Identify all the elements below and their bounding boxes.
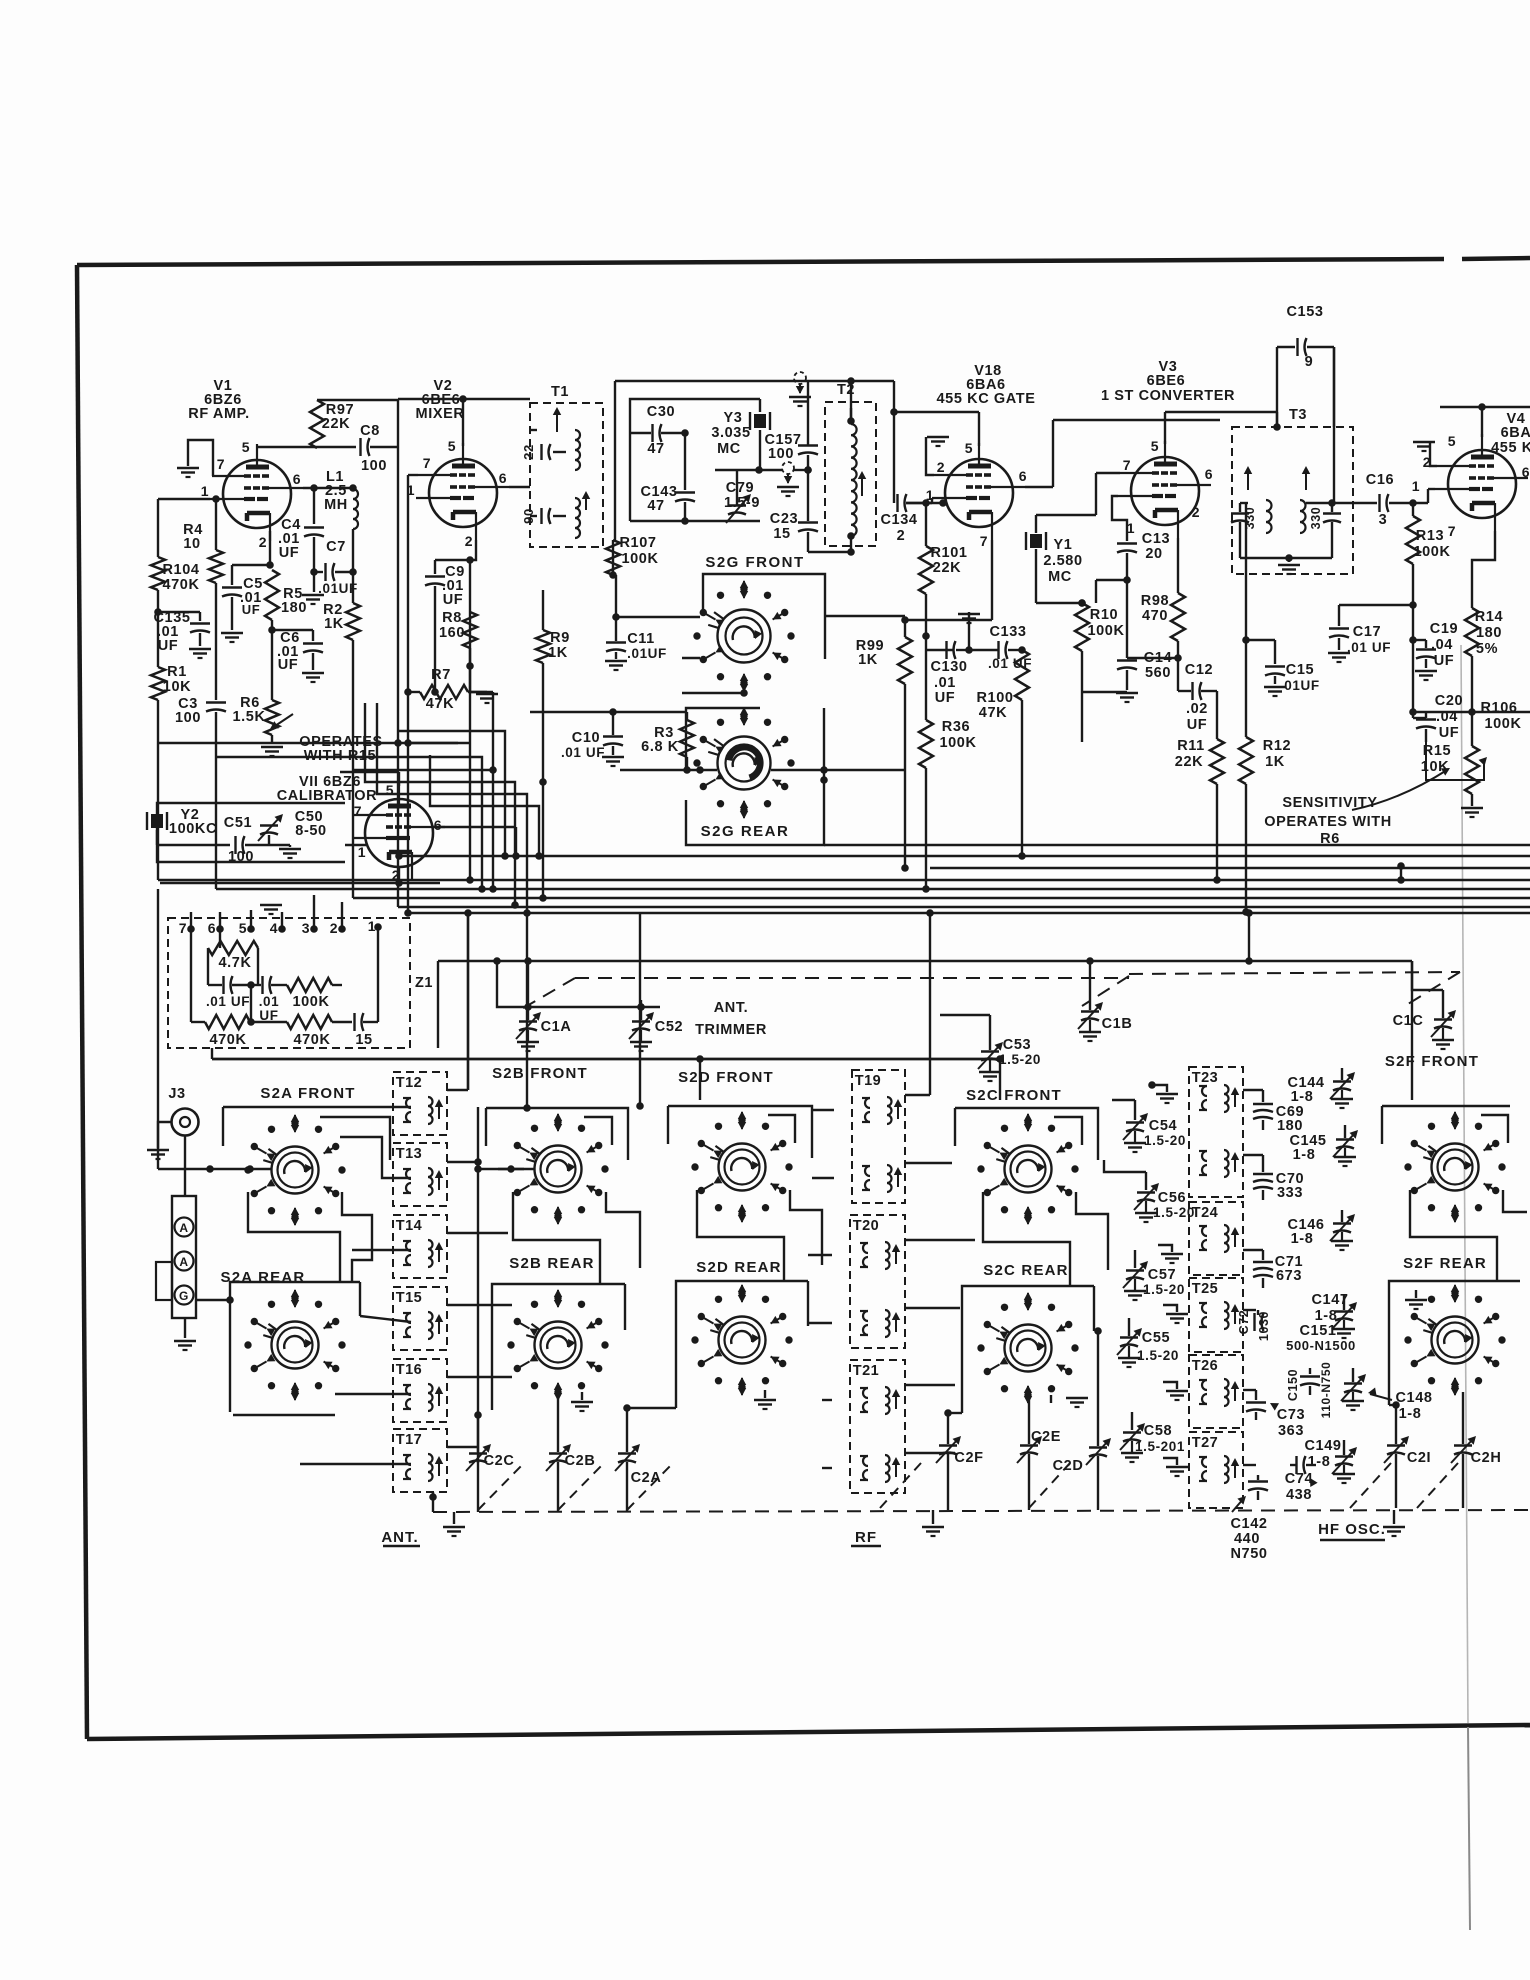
- svg-text:T27: T27: [1192, 1435, 1219, 1451]
- svg-text:Z1: Z1: [415, 975, 433, 991]
- C2A riser: [626, 1408, 628, 1452]
- svg-text:1.5-20: 1.5-20: [1137, 1348, 1179, 1363]
- svg-text:T21: T21: [853, 1363, 880, 1379]
- trimmer C147: [1343, 1295, 1345, 1310]
- wire V2 pin5: [462, 399, 464, 446]
- trimmer C2B: [549, 1452, 567, 1454]
- capacitor C11 .01UF: [615, 575, 617, 641]
- staircase wire C: [353, 769, 493, 771]
- resistor R15 10K: [1471, 712, 1473, 746]
- svg-text:UF: UF: [1187, 717, 1208, 733]
- resistor R12 1K: [1245, 503, 1247, 737]
- wire R107 vert: [612, 540, 614, 575]
- capacitor C17 .01UF: [1338, 605, 1340, 626]
- T25 ground: [1163, 1305, 1177, 1312]
- wire R1 down: [157, 700, 159, 743]
- S2F interwires: [1410, 1190, 1497, 1281]
- svg-text:2: 2: [330, 920, 338, 936]
- T15 wires: [360, 1316, 411, 1322]
- svg-text:C2B: C2B: [565, 1453, 596, 1469]
- wire y961: [438, 960, 1412, 962]
- wire V1 pin6: [303, 487, 353, 489]
- gang dashed bottom: [433, 1510, 1530, 1512]
- svg-text:T13: T13: [396, 1146, 423, 1162]
- capacitor C135: [158, 611, 200, 613]
- S2C front wires: [955, 1108, 1098, 1160]
- ground under C7: [302, 594, 324, 597]
- svg-text:C1B: C1B: [1102, 1016, 1133, 1032]
- svg-text:C79: C79: [726, 480, 754, 496]
- capacitor C8: [359, 438, 361, 456]
- svg-text:1-8: 1-8: [1291, 1089, 1314, 1105]
- ground above Z1: [281, 912, 283, 929]
- capacitor C30 47: [651, 424, 653, 442]
- svg-text:C56: C56: [1158, 1190, 1186, 1206]
- trimmer C1B: [1089, 961, 1091, 1010]
- svg-text:22: 22: [521, 444, 536, 460]
- page border left: [77, 265, 87, 1739]
- svg-text:6: 6: [1019, 468, 1027, 484]
- svg-text:S2G FRONT: S2G FRONT: [705, 554, 804, 571]
- svg-text:CALIBRATOR: CALIBRATOR: [277, 788, 378, 804]
- trimmer C50 8-50: [268, 835, 270, 845]
- T column risers: [477, 1107, 479, 1463]
- svg-text:1.5-9: 1.5-9: [724, 495, 760, 511]
- wire R8 down: [469, 648, 471, 692]
- wire V18 pin5: [978, 412, 980, 446]
- svg-text:1-8: 1-8: [1399, 1406, 1422, 1422]
- svg-text:UF: UF: [242, 602, 261, 617]
- svg-text:ANT.: ANT.: [381, 1529, 418, 1546]
- svg-text:160: 160: [439, 625, 465, 641]
- svg-text:C74: C74: [1285, 1471, 1313, 1487]
- trimmer C145: [1344, 1125, 1346, 1138]
- bus riser x543: [542, 680, 544, 898]
- svg-text:C133: C133: [989, 624, 1026, 640]
- svg-text:C73: C73: [1277, 1407, 1305, 1423]
- capacitor C143 47: [675, 491, 695, 493]
- staircase wire A: [158, 742, 470, 744]
- svg-text:MIXER: MIXER: [416, 406, 465, 422]
- arrow R6 wiper: [272, 714, 293, 728]
- wire y712 top: [530, 711, 687, 713]
- trimmer C53: [989, 1015, 991, 1050]
- svg-text:1-8: 1-8: [1291, 1231, 1314, 1247]
- S2F rear wires: [1389, 1281, 1520, 1405]
- svg-text:500-N1500: 500-N1500: [1286, 1338, 1356, 1353]
- svg-text:470K: 470K: [209, 1032, 246, 1048]
- resistor R11 22K: [1216, 691, 1218, 739]
- trimmer C58: [1131, 1412, 1133, 1430]
- svg-text:MC: MC: [1048, 569, 1072, 585]
- wire xtal node: [759, 469, 782, 471]
- svg-text:6: 6: [499, 470, 507, 486]
- svg-text:C1C: C1C: [1393, 1013, 1424, 1029]
- capacitor C69 180: [1243, 1089, 1263, 1091]
- svg-text:438: 438: [1286, 1487, 1312, 1503]
- T3 right arrow: [1305, 470, 1307, 490]
- svg-text:T1: T1: [551, 384, 569, 400]
- wire V18 pin2 gnd: [926, 437, 934, 475]
- switch S2G rear: [718, 737, 771, 790]
- bus line 3: [930, 867, 1530, 869]
- svg-text:T14: T14: [396, 1218, 423, 1234]
- svg-text:330: 330: [1243, 507, 1257, 530]
- svg-text:UF: UF: [443, 592, 464, 608]
- J3 ground: [158, 1122, 171, 1148]
- capacitor C14 560: [1117, 659, 1137, 661]
- svg-text:MC: MC: [717, 441, 741, 457]
- svg-text:C149: C149: [1304, 1438, 1341, 1454]
- C2I riser: [1395, 1405, 1397, 1444]
- svg-text:1.5-20: 1.5-20: [1144, 1133, 1186, 1148]
- S2G front wires: [616, 616, 700, 618]
- ground C130 node: [968, 612, 970, 650]
- svg-text:T25: T25: [1192, 1281, 1219, 1297]
- wire y1007: [497, 961, 660, 1007]
- wire V2 pin7: [408, 474, 418, 476]
- bus riser x905: [904, 730, 906, 868]
- svg-text:363: 363: [1278, 1423, 1304, 1439]
- svg-text:1030: 1030: [1257, 1311, 1271, 1341]
- svg-text:1-8: 1-8: [1293, 1147, 1316, 1163]
- svg-text:.01 UF: .01 UF: [561, 745, 605, 760]
- resistor R10 100K: [1075, 603, 1089, 651]
- svg-text:470K: 470K: [162, 577, 199, 593]
- svg-text:560: 560: [1145, 665, 1171, 681]
- capacitor C73 363: [1243, 1389, 1256, 1391]
- svg-text:2: 2: [897, 528, 906, 544]
- S2B-T connectors: [478, 1168, 534, 1170]
- wire Z1 pins up: [190, 912, 192, 929]
- resistor R107 100K: [606, 540, 620, 575]
- svg-text:R15: R15: [1423, 743, 1451, 759]
- svg-text:.01UF: .01UF: [318, 581, 358, 596]
- capacitor C74 438: [1243, 1464, 1256, 1466]
- svg-text:4.7K: 4.7K: [218, 955, 251, 971]
- svg-text:5: 5: [1448, 433, 1456, 449]
- bus riser x926: [925, 790, 927, 889]
- trimmer C2I: [1387, 1444, 1405, 1446]
- capacitor C23 15: [798, 521, 818, 523]
- terminal G: [175, 1286, 194, 1305]
- svg-text:R7: R7: [431, 667, 451, 683]
- transformer T16: [393, 1359, 447, 1422]
- S2A rear wires: [230, 1282, 360, 1412]
- capacitor C4: [313, 488, 315, 524]
- switch S2B rear: [535, 1322, 582, 1369]
- transformer T19: [852, 1070, 905, 1203]
- trimmer C1A: [527, 961, 529, 1020]
- svg-text:R106: R106: [1480, 700, 1517, 716]
- transformer T17: [393, 1429, 447, 1492]
- bus left vertical x158: [157, 889, 159, 1059]
- transformer T23: [1189, 1067, 1243, 1197]
- svg-text:S2F REAR: S2F REAR: [1403, 1255, 1487, 1272]
- svg-text:T23: T23: [1192, 1070, 1219, 1086]
- S2B rear wires: [492, 1284, 625, 1410]
- S2G rear box: [686, 708, 760, 770]
- svg-text:UF: UF: [1439, 725, 1460, 741]
- svg-text:6: 6: [1205, 466, 1213, 482]
- resistor R101 22K: [919, 546, 933, 594]
- T3 ground: [1288, 556, 1290, 562]
- wire V4 pin5 top: [1481, 407, 1483, 437]
- T1 coil upper: [575, 430, 580, 470]
- switch S2F rear: [1432, 1317, 1479, 1364]
- svg-text:C150: C150: [1286, 1369, 1300, 1401]
- switch S2G front: [718, 610, 771, 663]
- svg-text:RF: RF: [855, 1529, 877, 1546]
- transformer T27: [1189, 1432, 1243, 1508]
- bus line 8: [408, 912, 1530, 914]
- wire V2 pin6: [509, 486, 530, 488]
- trimmer C1C: [1442, 990, 1444, 1018]
- svg-text:47K: 47K: [426, 696, 454, 712]
- svg-text:C1A: C1A: [541, 1019, 572, 1035]
- svg-text:1.5-20: 1.5-20: [1143, 1282, 1185, 1297]
- wire C30 node: [684, 433, 686, 490]
- C2C riser: [477, 1415, 479, 1452]
- svg-text:6BA: 6BA: [1501, 425, 1530, 441]
- terminal strip AAG: [172, 1196, 196, 1318]
- capacitor C133 .01UF: [969, 649, 999, 651]
- svg-text:R98: R98: [1141, 593, 1169, 609]
- T3 left winding: [1231, 512, 1249, 514]
- capacitor C15 01UF: [1274, 640, 1276, 664]
- transformer T12: [393, 1072, 447, 1135]
- svg-text:6: 6: [434, 817, 442, 833]
- phantom ground top: [794, 372, 806, 384]
- S2D rear wires: [676, 1281, 808, 1408]
- phantom ground 2: [782, 462, 794, 474]
- svg-text:100K: 100K: [939, 735, 976, 751]
- svg-text:5: 5: [386, 782, 394, 798]
- transformer T26: [1189, 1355, 1243, 1428]
- wire C134 to V18 pin1: [906, 502, 932, 504]
- svg-text:6: 6: [1522, 464, 1530, 480]
- svg-text:S2D FRONT: S2D FRONT: [678, 1069, 774, 1086]
- tube V1 6BZ6 RF amp: [223, 460, 291, 528]
- svg-text:C2A: C2A: [631, 1470, 662, 1486]
- gang dashed diag right: [1408, 972, 1460, 1004]
- resistor R98 470: [1177, 560, 1179, 593]
- resistor R13 100K: [1412, 503, 1414, 516]
- svg-text:R104: R104: [162, 562, 199, 578]
- resistor R3 6.8K: [686, 712, 688, 720]
- T24 ground: [1158, 1245, 1172, 1252]
- svg-text:5: 5: [448, 438, 456, 454]
- capacitor C13 20: [1117, 542, 1137, 544]
- page border bottom: [87, 1725, 1530, 1739]
- svg-text:100K: 100K: [1087, 623, 1124, 639]
- capacitor C5 .01UF: [231, 565, 233, 585]
- svg-text:R107: R107: [619, 535, 656, 551]
- resistor 100K z1: [287, 978, 332, 992]
- resistor 470K a: [205, 1015, 250, 1029]
- bus riser x1217: [1216, 800, 1218, 880]
- svg-text:A: A: [179, 1255, 188, 1269]
- T2 dashed box: [825, 402, 876, 546]
- svg-text:T16: T16: [396, 1362, 423, 1378]
- capacitor C9 .01UF: [435, 559, 470, 561]
- trimmer C57: [1134, 1250, 1136, 1268]
- svg-text:7: 7: [1123, 457, 1131, 473]
- T3 right winding: [1300, 500, 1306, 533]
- wire V1 pin2: [269, 531, 271, 565]
- ground under C50: [289, 845, 291, 847]
- capacitor C10 .01UF: [612, 712, 614, 735]
- svg-text:T20: T20: [853, 1218, 880, 1234]
- trimmer C2C: [469, 1452, 487, 1454]
- wire V18 pin6: [1025, 486, 1053, 488]
- svg-text:673: 673: [1276, 1268, 1302, 1284]
- wire V1 pin1: [158, 498, 210, 500]
- S2B extra riser: [526, 913, 528, 1108]
- tube V11 6BZ6 calibrator: [365, 799, 433, 867]
- S2G front box: [703, 574, 825, 659]
- resistor R8 160: [463, 612, 477, 648]
- wire C153 right leg: [1333, 347, 1335, 503]
- wire R104 to R1: [157, 590, 159, 667]
- capacitor C134 2: [896, 494, 898, 512]
- capacitor .01UF a: [222, 976, 224, 994]
- svg-text:T19: T19: [855, 1073, 882, 1089]
- svg-text:7: 7: [217, 456, 225, 472]
- svg-text:S2B FRONT: S2B FRONT: [492, 1065, 588, 1082]
- svg-text:C72: C72: [1237, 1310, 1251, 1335]
- T2 coil: [851, 424, 857, 536]
- svg-text:C2E: C2E: [1031, 1429, 1061, 1445]
- C2E riser: [1028, 1395, 1030, 1444]
- svg-text:UF: UF: [158, 638, 179, 654]
- svg-text:6: 6: [293, 471, 301, 487]
- T1 dashed box: [530, 403, 603, 547]
- bus line 1: [824, 844, 1530, 846]
- T1 coil lower: [575, 498, 580, 538]
- svg-text:10K: 10K: [163, 679, 191, 695]
- svg-text:.01: .01: [259, 994, 280, 1009]
- svg-text:180: 180: [281, 600, 307, 616]
- Z1 pin dots: [187, 925, 195, 933]
- capacitor C3 100: [215, 583, 217, 700]
- svg-text:1.5-20: 1.5-20: [999, 1052, 1041, 1067]
- svg-text:RF AMP.: RF AMP.: [188, 406, 249, 422]
- svg-text:100: 100: [361, 458, 387, 474]
- capacitor .01UF b: [261, 976, 263, 994]
- svg-text:440: 440: [1234, 1531, 1260, 1547]
- svg-text:N750: N750: [1230, 1546, 1267, 1562]
- svg-text:HF OSC.: HF OSC.: [1318, 1521, 1386, 1538]
- calibrator box: [157, 803, 345, 862]
- capacitor C157 100: [807, 381, 809, 446]
- svg-text:7: 7: [423, 455, 431, 471]
- svg-text:S2C FRONT: S2C FRONT: [966, 1087, 1062, 1104]
- svg-text:R100: R100: [976, 690, 1013, 706]
- transformer T20: [850, 1215, 905, 1348]
- bus line 6: [353, 897, 1530, 899]
- svg-text:T12: T12: [396, 1075, 423, 1091]
- V11 pin6 wire: [433, 826, 516, 828]
- svg-text:C52: C52: [655, 1019, 683, 1035]
- crystal Y3: [749, 412, 751, 430]
- capacitor C7 .01UF: [314, 571, 323, 573]
- svg-text:100: 100: [175, 710, 201, 726]
- svg-text:6: 6: [208, 920, 216, 936]
- wire R5 to R6 node: [271, 620, 273, 700]
- capacitor C12 .02UF: [1177, 658, 1179, 691]
- resistor R4 10: [215, 499, 217, 550]
- svg-text:R11: R11: [1177, 738, 1205, 754]
- wire V1 pin7 ground: [188, 440, 213, 476]
- svg-text:C12: C12: [1185, 662, 1213, 678]
- resistor R99 1K: [898, 637, 912, 684]
- resistor R7 47K: [420, 685, 468, 699]
- wire C23 node: [804, 466, 812, 474]
- svg-text:.01UF: .01UF: [627, 646, 667, 661]
- svg-text:100K: 100K: [1413, 544, 1450, 560]
- ground under R6: [271, 735, 273, 744]
- bus line 4: [158, 879, 1530, 881]
- C2F riser: [947, 1413, 949, 1444]
- svg-text:6.8 K: 6.8 K: [641, 739, 679, 755]
- svg-text:100K: 100K: [1484, 716, 1521, 732]
- svg-text:2: 2: [937, 459, 945, 475]
- terminal A2: [175, 1252, 194, 1271]
- trimmer C56: [1145, 1172, 1147, 1190]
- Z1 dashed box: [168, 918, 410, 1048]
- wire V3 pin1: [1112, 496, 1127, 541]
- svg-text:C130: C130: [930, 659, 967, 675]
- svg-text:.04: .04: [1436, 709, 1458, 725]
- wire top y381: [615, 380, 894, 382]
- wire y1059: [212, 1058, 1000, 1060]
- svg-text:C153: C153: [1286, 304, 1323, 320]
- svg-text:S2G REAR: S2G REAR: [701, 823, 790, 840]
- svg-text:C23: C23: [770, 511, 798, 527]
- wire Y2 down: [156, 830, 158, 845]
- svg-text:22K: 22K: [1175, 754, 1203, 770]
- resistor R5 180: [265, 570, 279, 620]
- cable bundle 3: [340, 771, 399, 773]
- switch S2A rear: [272, 1322, 319, 1369]
- wire V1 pin5 top: [258, 446, 356, 448]
- svg-text:C134: C134: [880, 512, 917, 528]
- svg-text:R9: R9: [550, 630, 570, 646]
- paper crease line: [1461, 645, 1468, 1723]
- wire R101 node: [922, 632, 930, 640]
- wire vertical x398: [397, 400, 399, 731]
- svg-text:455 KC GATE: 455 KC GATE: [937, 391, 1036, 407]
- T12 wires: [390, 1106, 411, 1108]
- resistor 4.7K: [219, 929, 221, 948]
- svg-text:MH: MH: [324, 497, 348, 513]
- svg-text:2: 2: [465, 533, 473, 549]
- svg-text:100KC: 100KC: [169, 821, 217, 837]
- wire calibrator pin1: [345, 844, 366, 846]
- crystal box: [630, 399, 760, 521]
- capacitor 15: [353, 1013, 355, 1031]
- tube V3 6BE6 converter: [1131, 457, 1199, 525]
- transformer T13: [393, 1143, 447, 1206]
- switch S2C rear: [1005, 1325, 1052, 1372]
- resistor R6 1.5K: [265, 700, 279, 735]
- svg-text:C55: C55: [1142, 1330, 1170, 1346]
- svg-text:3: 3: [1379, 512, 1388, 528]
- RF shaft ground: [932, 1510, 934, 1524]
- svg-text:1-8: 1-8: [1315, 1308, 1338, 1324]
- svg-text:R1: R1: [167, 664, 187, 680]
